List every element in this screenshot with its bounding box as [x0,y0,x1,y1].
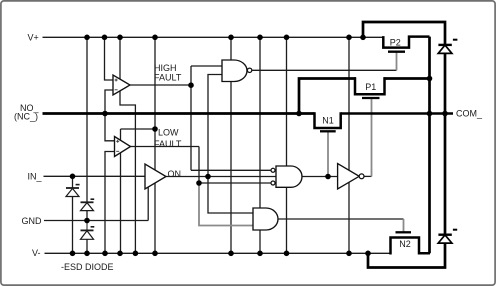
svg-text:N1: N1 [322,116,334,126]
svg-text:IN_: IN_ [28,171,43,181]
svg-text:(NC_): (NC_) [14,112,38,122]
svg-text:N2: N2 [399,239,411,249]
svg-text:ON: ON [168,169,182,179]
svg-text:FAULT: FAULT [154,139,182,149]
svg-text:FAULT: FAULT [154,72,182,82]
svg-text:LOW: LOW [158,128,179,138]
svg-text:P2: P2 [390,38,401,48]
svg-text:-ESD DIODE: -ESD DIODE [61,262,114,272]
svg-text:V+: V+ [28,32,39,42]
svg-text:COM_: COM_ [456,108,483,118]
svg-text:V-: V- [32,248,41,258]
svg-text:P1: P1 [365,82,376,92]
svg-text:GND: GND [22,216,43,226]
